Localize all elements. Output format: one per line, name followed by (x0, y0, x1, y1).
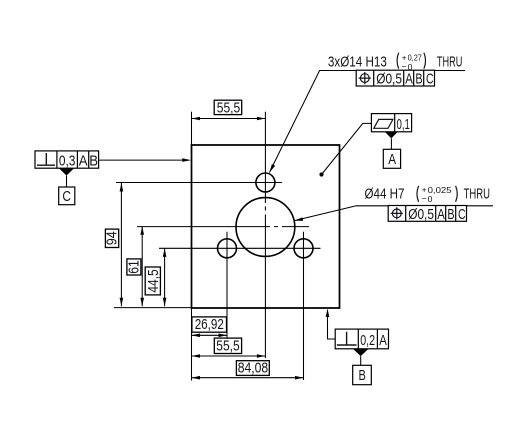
svg-text:C: C (62, 188, 71, 205)
leader flatness to top face (dot) (319, 123, 371, 176)
svg-text:B: B (447, 206, 454, 223)
svg-text:0,1: 0,1 (397, 116, 410, 133)
dimension 84,08 bottom (192, 360, 304, 380)
svg-text:A: A (388, 151, 396, 168)
hole circle C2 Ø14 top (256, 173, 275, 192)
svg-text:B: B (359, 367, 366, 384)
hole circle C1 Ø44 (236, 198, 295, 257)
leader Ø44 to big hole (294, 206, 493, 221)
label Ø44 H7 tolerance THRU (365, 185, 491, 205)
svg-text:Ø0,5: Ø0,5 (408, 206, 434, 223)
svg-text:A: A (437, 206, 445, 223)
svg-text:THRU: THRU (437, 54, 463, 70)
svg-text:A: A (405, 71, 413, 88)
svg-text:−: − (422, 194, 427, 204)
svg-text:Ø0,5: Ø0,5 (376, 71, 402, 88)
svg-text:A: A (379, 332, 387, 349)
feature control frame position Ø0,5 A B C (top) (356, 70, 434, 87)
datum B (353, 349, 372, 385)
extension line left edge above (191, 112, 193, 145)
svg-text:B: B (89, 152, 98, 169)
leader perpendicularity 0,2 to bottom face (326, 309, 336, 340)
svg-text:61: 61 (125, 260, 142, 274)
centerline horizontal Ø44 (137, 226, 309, 228)
svg-text:THRU: THRU (464, 187, 490, 203)
leader perpendicularity 0,3 to left face (99, 158, 191, 162)
svg-text:26,92: 26,92 (195, 316, 224, 333)
feature control frame flatness 0,1 (371, 114, 411, 133)
leader 3xØ14 to top hole (269, 71, 465, 173)
svg-text:94: 94 (103, 231, 120, 245)
svg-text:A: A (79, 152, 88, 169)
label 3xØ14 H13 tolerance THRU (328, 52, 463, 72)
feature control frame perpendicularity 0,3 A B (35, 151, 99, 170)
centerline vertical right hole (303, 232, 305, 380)
datum A (383, 132, 400, 169)
dimension 26,92 bottom (192, 316, 228, 337)
extension line left edge below (191, 308, 193, 381)
dimension 55,5 bottom (192, 337, 266, 357)
centerline horizontal top hole (116, 182, 282, 184)
svg-text:44,5: 44,5 (145, 269, 162, 292)
centerline horizontal bottom holes (159, 247, 321, 249)
svg-text:Ø44 H7: Ø44 H7 (365, 187, 405, 203)
centerline vertical left hole (226, 232, 228, 338)
datum C (59, 168, 75, 205)
hole circle C3 Ø14 left (218, 239, 237, 258)
svg-text:C: C (426, 71, 434, 88)
dimension 44,5 left (145, 248, 167, 306)
part outline (192, 145, 340, 308)
hole circle C4 Ø14 right (294, 239, 313, 258)
feature control frame position Ø0,5 A B C (middle) (388, 206, 466, 223)
svg-text:0,3: 0,3 (59, 152, 76, 169)
dimension 55,5 top (192, 100, 266, 121)
centerline vertical main (264, 112, 266, 358)
dimension 61 left (125, 226, 144, 306)
svg-text:84,08: 84,08 (238, 360, 268, 377)
svg-text:C: C (458, 206, 466, 223)
extension line bottom edge left (114, 307, 192, 309)
dimension 94 left (103, 183, 123, 306)
feature control frame perpendicularity 0,2 A (335, 329, 388, 349)
svg-text:55,5: 55,5 (217, 100, 240, 117)
svg-text:3xØ14 H13: 3xØ14 H13 (328, 54, 387, 70)
svg-text:B: B (415, 71, 422, 88)
svg-text:55,5: 55,5 (216, 337, 239, 354)
svg-text:0: 0 (428, 194, 433, 204)
svg-text:0,2: 0,2 (360, 332, 375, 349)
